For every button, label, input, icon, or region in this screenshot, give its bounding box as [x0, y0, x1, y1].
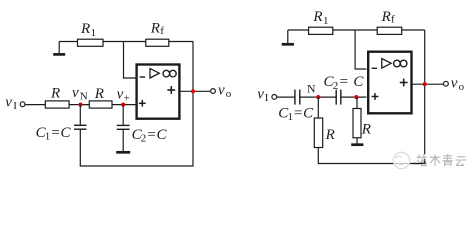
svg-text:=C: =C [50, 125, 71, 141]
svg-text:o: o [459, 81, 465, 93]
ground G1 (left circuit top) [53, 42, 65, 55]
svg-text:+: + [124, 93, 130, 105]
wire positive-feedback loop bottom (right circuit) [318, 84, 424, 163]
terminal vo (left circuit) [211, 83, 232, 100]
svg-text:R: R [50, 86, 60, 102]
terminal vI (left circuit) [5, 95, 25, 112]
resistor R1 (right circuit) [309, 9, 333, 34]
node output (right circuit) [423, 82, 427, 86]
wire positive-feedback loop bottom (left circuit) [80, 91, 193, 166]
resistor R (left circuit, second series) [89, 86, 112, 108]
svg-text:=C: =C [293, 106, 314, 122]
wire input rail (left circuit) [26, 104, 136, 106]
capacitor C2 (left circuit) [117, 105, 168, 152]
svg-text:v: v [117, 87, 124, 103]
resistor R (left circuit, first series) [45, 86, 69, 109]
wire input rail segment a (right circuit) [277, 96, 295, 98]
ground G3 (right circuit top) [282, 30, 294, 44]
resistor Rf (left circuit) [146, 21, 169, 47]
svg-text:1: 1 [91, 27, 97, 39]
wire output (right circuit) [412, 83, 444, 85]
wire top feedback rail (right circuit) [288, 29, 425, 31]
capacitor C1 (right circuit, series input) [278, 90, 314, 124]
svg-text:=: = [339, 74, 349, 90]
svg-text:C: C [353, 74, 364, 90]
resistor R1 (left circuit) [78, 21, 104, 46]
node vN [72, 85, 88, 107]
wire inverting-input branch (left circuit) [124, 42, 136, 79]
watermark logo [393, 152, 409, 168]
capacitor C1 (left circuit) [36, 105, 87, 143]
svg-text:R: R [312, 9, 322, 25]
svg-text:R: R [94, 86, 104, 102]
svg-text:R: R [150, 21, 160, 37]
terminal vI (right circuit) [257, 87, 276, 104]
op-amp U2 (right circuit) [368, 52, 411, 114]
wire Rf to output node (right circuit) [424, 30, 426, 84]
capacitor C2 (right circuit, series) [324, 74, 365, 104]
node R-C junction (right circuit) [354, 95, 358, 99]
resistor Rf (right circuit) [377, 9, 402, 34]
svg-text:f: f [160, 25, 164, 37]
svg-text:R: R [80, 21, 90, 37]
svg-text:f: f [391, 13, 395, 25]
svg-text:I: I [13, 100, 17, 112]
svg-text:=C: =C [146, 127, 167, 143]
resistor R (right circuit, ground leg) [353, 97, 371, 143]
ground G4 (right circuit, under R) [351, 143, 363, 146]
node v+ [117, 87, 130, 107]
svg-text:I: I [265, 92, 269, 104]
svg-text:R: R [361, 122, 371, 138]
terminal vo (right circuit) [444, 76, 465, 93]
resistor R (right circuit, feedback leg under N) [314, 97, 334, 147]
svg-text:N: N [307, 82, 316, 96]
wire input rail segment b (right circuit) [300, 96, 336, 98]
svg-text:N: N [80, 91, 88, 103]
wire inverting-input branch (right circuit) [355, 30, 366, 69]
wire output (left circuit) [180, 90, 210, 92]
ground G2 (under C2, left circuit) [116, 151, 130, 154]
node output (left circuit) [191, 89, 195, 93]
svg-text:2: 2 [333, 80, 339, 92]
svg-text:v: v [5, 95, 12, 111]
svg-text:R: R [381, 9, 391, 25]
svg-text:R: R [325, 127, 335, 143]
node N [307, 82, 321, 100]
svg-text:o: o [226, 88, 232, 100]
svg-text:v: v [257, 87, 264, 103]
wire Rf to output node (left circuit) [192, 42, 194, 92]
op-amp U1 (left circuit) [137, 65, 180, 119]
watermark text [417, 154, 467, 166]
svg-text:v: v [218, 83, 225, 99]
svg-text:v: v [451, 76, 458, 92]
wire bottom-right corner redraw (right circuit) [413, 160, 425, 163]
wire input rail segment c (right circuit) [341, 96, 367, 98]
svg-text:v: v [72, 85, 79, 101]
svg-text:1: 1 [323, 15, 329, 27]
wire top feedback rail (left circuit) [59, 41, 193, 43]
